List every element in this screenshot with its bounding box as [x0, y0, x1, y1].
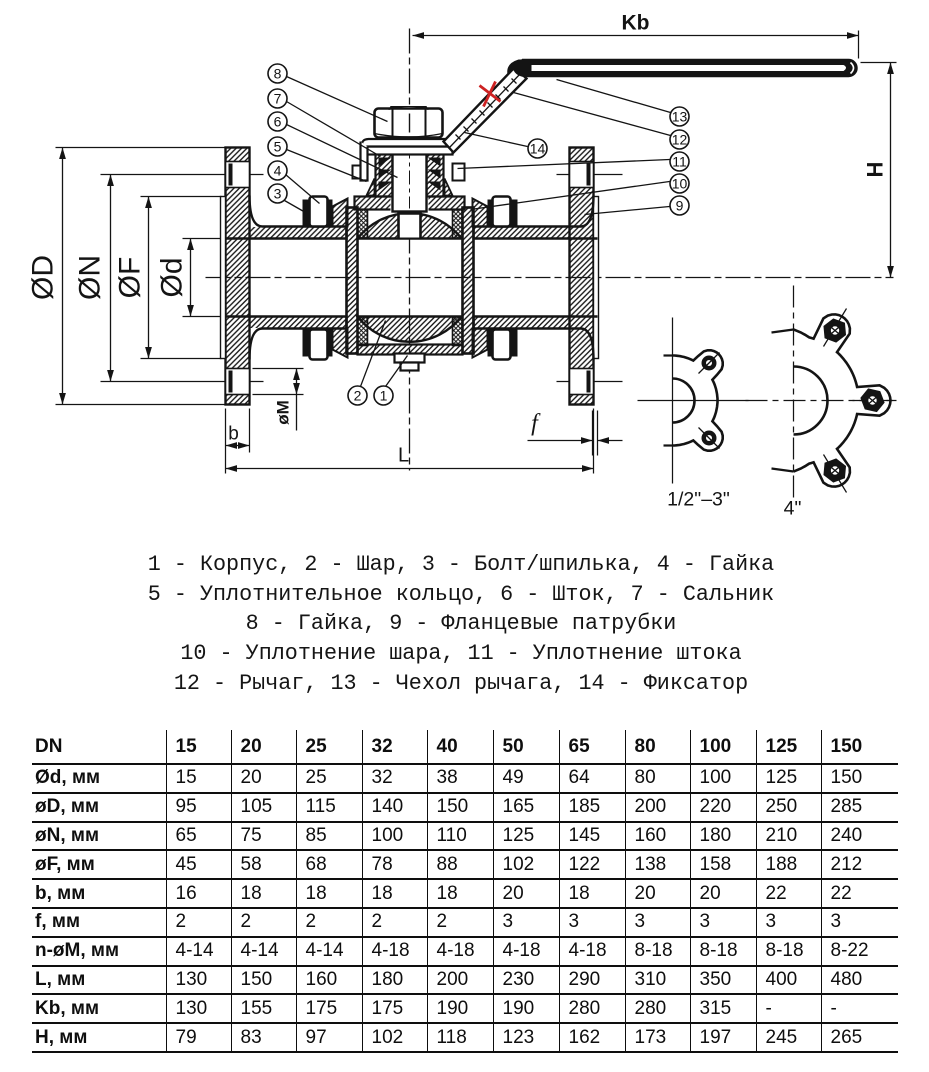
- dimension H extension line top: [861, 62, 897, 64]
- bolt bracket ear top-right: [473, 199, 488, 227]
- svg-text:4": 4": [784, 498, 802, 520]
- bolt-hole axis right flange top: [557, 174, 623, 176]
- callout 9: [585, 196, 690, 215]
- svg-text:f: f: [531, 411, 541, 437]
- bonnet flare left: [367, 179, 375, 196]
- stem neck left wall: [376, 153, 393, 197]
- lock tab (item 14): [361, 142, 368, 181]
- dimension Ød extension lines: [183, 239, 226, 317]
- svg-text:8: 8: [274, 66, 282, 82]
- dimension Kb extension line right: [858, 31, 860, 59]
- dimension ØF extension lines: [141, 197, 222, 359]
- svg-text:11: 11: [672, 154, 687, 170]
- callout 10: [471, 174, 690, 210]
- dimension L: [226, 445, 594, 472]
- bolt-hole axis right flange bottom: [557, 381, 623, 383]
- dimension ØD extension lines: [56, 148, 226, 405]
- callout 7: [268, 89, 381, 157]
- svg-text:1/2"–3": 1/2"–3": [667, 489, 730, 511]
- ball seat top right: [453, 210, 463, 239]
- ball seat top left: [358, 210, 368, 239]
- bolt top-right: [488, 197, 518, 227]
- bolt bracket ear bottom-right: [473, 329, 488, 358]
- callout 11: [458, 152, 690, 171]
- dimension H: [863, 63, 894, 278]
- svg-text:4: 4: [274, 163, 282, 179]
- svg-text:H: H: [863, 162, 888, 178]
- callout 6: [268, 112, 398, 178]
- flange end view large: outline: [772, 330, 794, 333]
- svg-text:ØF: ØF: [114, 257, 147, 299]
- callout 3: [268, 184, 306, 213]
- flange end view small: bolt top: [699, 353, 720, 374]
- callout 4: [268, 161, 320, 204]
- bolt bottom-right: [488, 330, 518, 360]
- dimension ØM: [274, 369, 300, 431]
- svg-text:6: 6: [274, 114, 282, 130]
- svg-text:Kb: Kb: [622, 12, 650, 35]
- flange end view small: bore: [673, 379, 695, 423]
- callout 1: [374, 356, 408, 406]
- o-ring tab right: [453, 164, 465, 181]
- callout 5: [268, 137, 367, 182]
- body tube left walls: [226, 196, 347, 360]
- bolt-hole axis left flange bottom: [101, 381, 264, 383]
- stem nut (item 8): [375, 106, 443, 138]
- flange end view small: centerlines: [638, 318, 749, 484]
- dimension ØF: [114, 197, 152, 359]
- svg-text:2: 2: [354, 388, 362, 404]
- bolt bottom-left: [303, 330, 333, 360]
- centre body end plate right: [463, 208, 474, 354]
- ball seat bottom left: [358, 317, 368, 346]
- flange end view small: outline: [664, 354, 673, 356]
- callout 2: [348, 321, 386, 406]
- dimension Kb: [413, 12, 859, 39]
- svg-text:Ød: Ød: [156, 257, 189, 297]
- stem neck right wall: [427, 153, 444, 197]
- svg-text:3: 3: [274, 186, 282, 202]
- packing chevrons right: [428, 158, 441, 191]
- dimension ØM extension lines: [253, 369, 304, 395]
- handle bar with sleeve (item 13): [514, 60, 858, 77]
- ball bottom dome: [358, 317, 462, 342]
- svg-text:7: 7: [274, 91, 282, 107]
- dimension Ød: [156, 239, 194, 317]
- svg-text:13: 13: [672, 109, 688, 125]
- bottom drain boss: [395, 354, 425, 371]
- svg-text:øM: øM: [274, 400, 293, 425]
- dimension ØD: [27, 148, 66, 405]
- callout 12: [514, 93, 690, 150]
- stem vertical axis centerline: [409, 29, 411, 471]
- ball seat bottom right: [453, 317, 463, 346]
- svg-text:b: b: [228, 424, 239, 445]
- right flange raised face: [594, 197, 599, 359]
- svg-text:14: 14: [530, 141, 546, 157]
- centre body end plate left: [347, 208, 358, 354]
- callout 8: [268, 64, 388, 122]
- bolt bracket ear top-left: [333, 199, 348, 227]
- handle diagonal arm (item 12): [444, 68, 527, 153]
- ball stem slot: [399, 212, 421, 238]
- red mark on handle: [480, 82, 501, 107]
- svg-text:ØN: ØN: [74, 255, 107, 300]
- svg-text:10: 10: [672, 176, 688, 192]
- flange end view large: bolt bottom: [824, 455, 847, 493]
- bolt top-left (item 3/4): [303, 197, 333, 227]
- svg-text:1: 1: [380, 388, 388, 404]
- flange end view small: bolt bottom: [699, 428, 720, 449]
- dimension f: [528, 411, 623, 444]
- ball (item 2) top dome: [358, 213, 462, 238]
- dimension ØN: [74, 175, 114, 382]
- flange end view large: bolt right: [853, 390, 897, 412]
- main pipe axis centerline: [206, 277, 894, 279]
- svg-text:L: L: [398, 445, 409, 467]
- handle flat plate: [362, 139, 450, 147]
- handle elbow: [507, 60, 531, 77]
- centre body bottom plate: [358, 345, 463, 355]
- flange end view large: centerlines: [793, 286, 795, 501]
- o-ring tab left (item 5): [353, 166, 363, 179]
- bolt bracket ear bottom-left: [333, 329, 348, 358]
- stem (item 6): [393, 142, 427, 212]
- flange end view large: bolt top: [824, 309, 847, 347]
- callout 13: [557, 80, 690, 127]
- left flange raised face: [221, 197, 226, 359]
- flange end view large: bore: [794, 367, 828, 435]
- bonnet flare right: [445, 179, 453, 196]
- centre body top plate: [355, 195, 465, 212]
- svg-text:9: 9: [676, 198, 684, 214]
- callout 14: [465, 133, 548, 159]
- gland plate: [367, 147, 453, 155]
- dimension b extension lines: [226, 409, 594, 474]
- dimension f extension lines: [593, 411, 598, 456]
- svg-text:ØD: ØD: [27, 255, 60, 300]
- packing chevrons left (item 7): [379, 158, 392, 191]
- svg-text:5: 5: [274, 139, 282, 155]
- body tube right walls: [474, 196, 598, 360]
- bolt-hole axis left flange top: [101, 174, 264, 176]
- dimension b: [226, 424, 250, 449]
- svg-text:12: 12: [672, 132, 688, 148]
- left flange body: [226, 148, 250, 405]
- right flange body: [570, 148, 594, 405]
